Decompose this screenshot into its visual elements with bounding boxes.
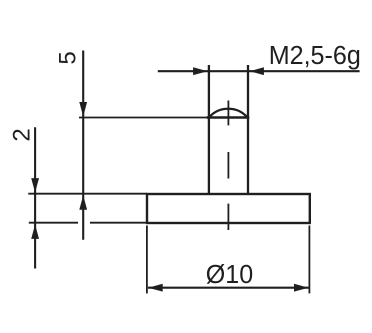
arrowhead Ø10 right (points right) (294, 284, 309, 292)
disc body Ø10 (147, 194, 310, 223)
dimension line 5 (82, 51, 84, 240)
stud left edge / extension line (208, 65, 210, 194)
dimension line M2,5-6g (158, 70, 360, 72)
svg-text:2: 2 (8, 128, 35, 141)
extension line Ø10 right (308, 226, 310, 294)
dimension line Ø10 (148, 287, 309, 289)
arrowhead M dim left (points right) (193, 67, 208, 75)
dimension line 2 (34, 127, 36, 268)
centerline segment middle (227, 152, 229, 179)
stud shoulder line (dome base) (207, 116, 250, 118)
arrowhead dim 5 down (79, 102, 87, 117)
arrowhead M dim right (points left) (249, 67, 264, 75)
svg-text:Ø10: Ø10 (206, 260, 253, 288)
centerline segment upper (227, 101, 229, 126)
arrowhead dim 2 down (31, 178, 39, 193)
svg-text:M2,5-6g: M2,5-6g (269, 41, 361, 69)
arrowhead dim 2 up (31, 224, 39, 239)
arrowhead Ø10 left (points left) (148, 284, 163, 292)
centerline segment lower (227, 204, 229, 230)
extension line disc bottom right piece (90, 222, 147, 224)
svg-text:5: 5 (55, 51, 82, 64)
arrowhead dim 5 up (79, 195, 87, 210)
extension line Ø10 left (146, 226, 148, 294)
stud right edge / extension line (247, 65, 249, 194)
extension line stud top (for dim 5) (79, 117, 207, 119)
extension line disc top (left) (28, 193, 147, 195)
extension line disc bottom left piece (29, 222, 78, 224)
dome arc top of stud (209, 109, 247, 118)
